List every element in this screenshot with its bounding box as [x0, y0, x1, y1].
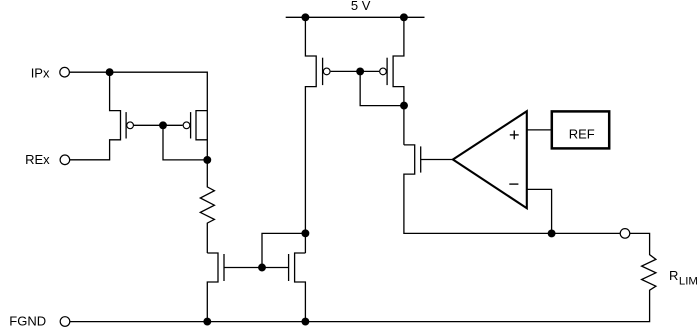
svg-text:5 V: 5 V: [351, 0, 371, 13]
svg-text:R: R: [669, 268, 678, 283]
svg-text:LIM: LIM: [679, 275, 698, 287]
svg-text:REx: REx: [25, 152, 50, 167]
svg-text:IPx: IPx: [31, 66, 50, 81]
svg-text:REF: REF: [569, 126, 595, 141]
svg-text:FGND: FGND: [9, 313, 46, 328]
